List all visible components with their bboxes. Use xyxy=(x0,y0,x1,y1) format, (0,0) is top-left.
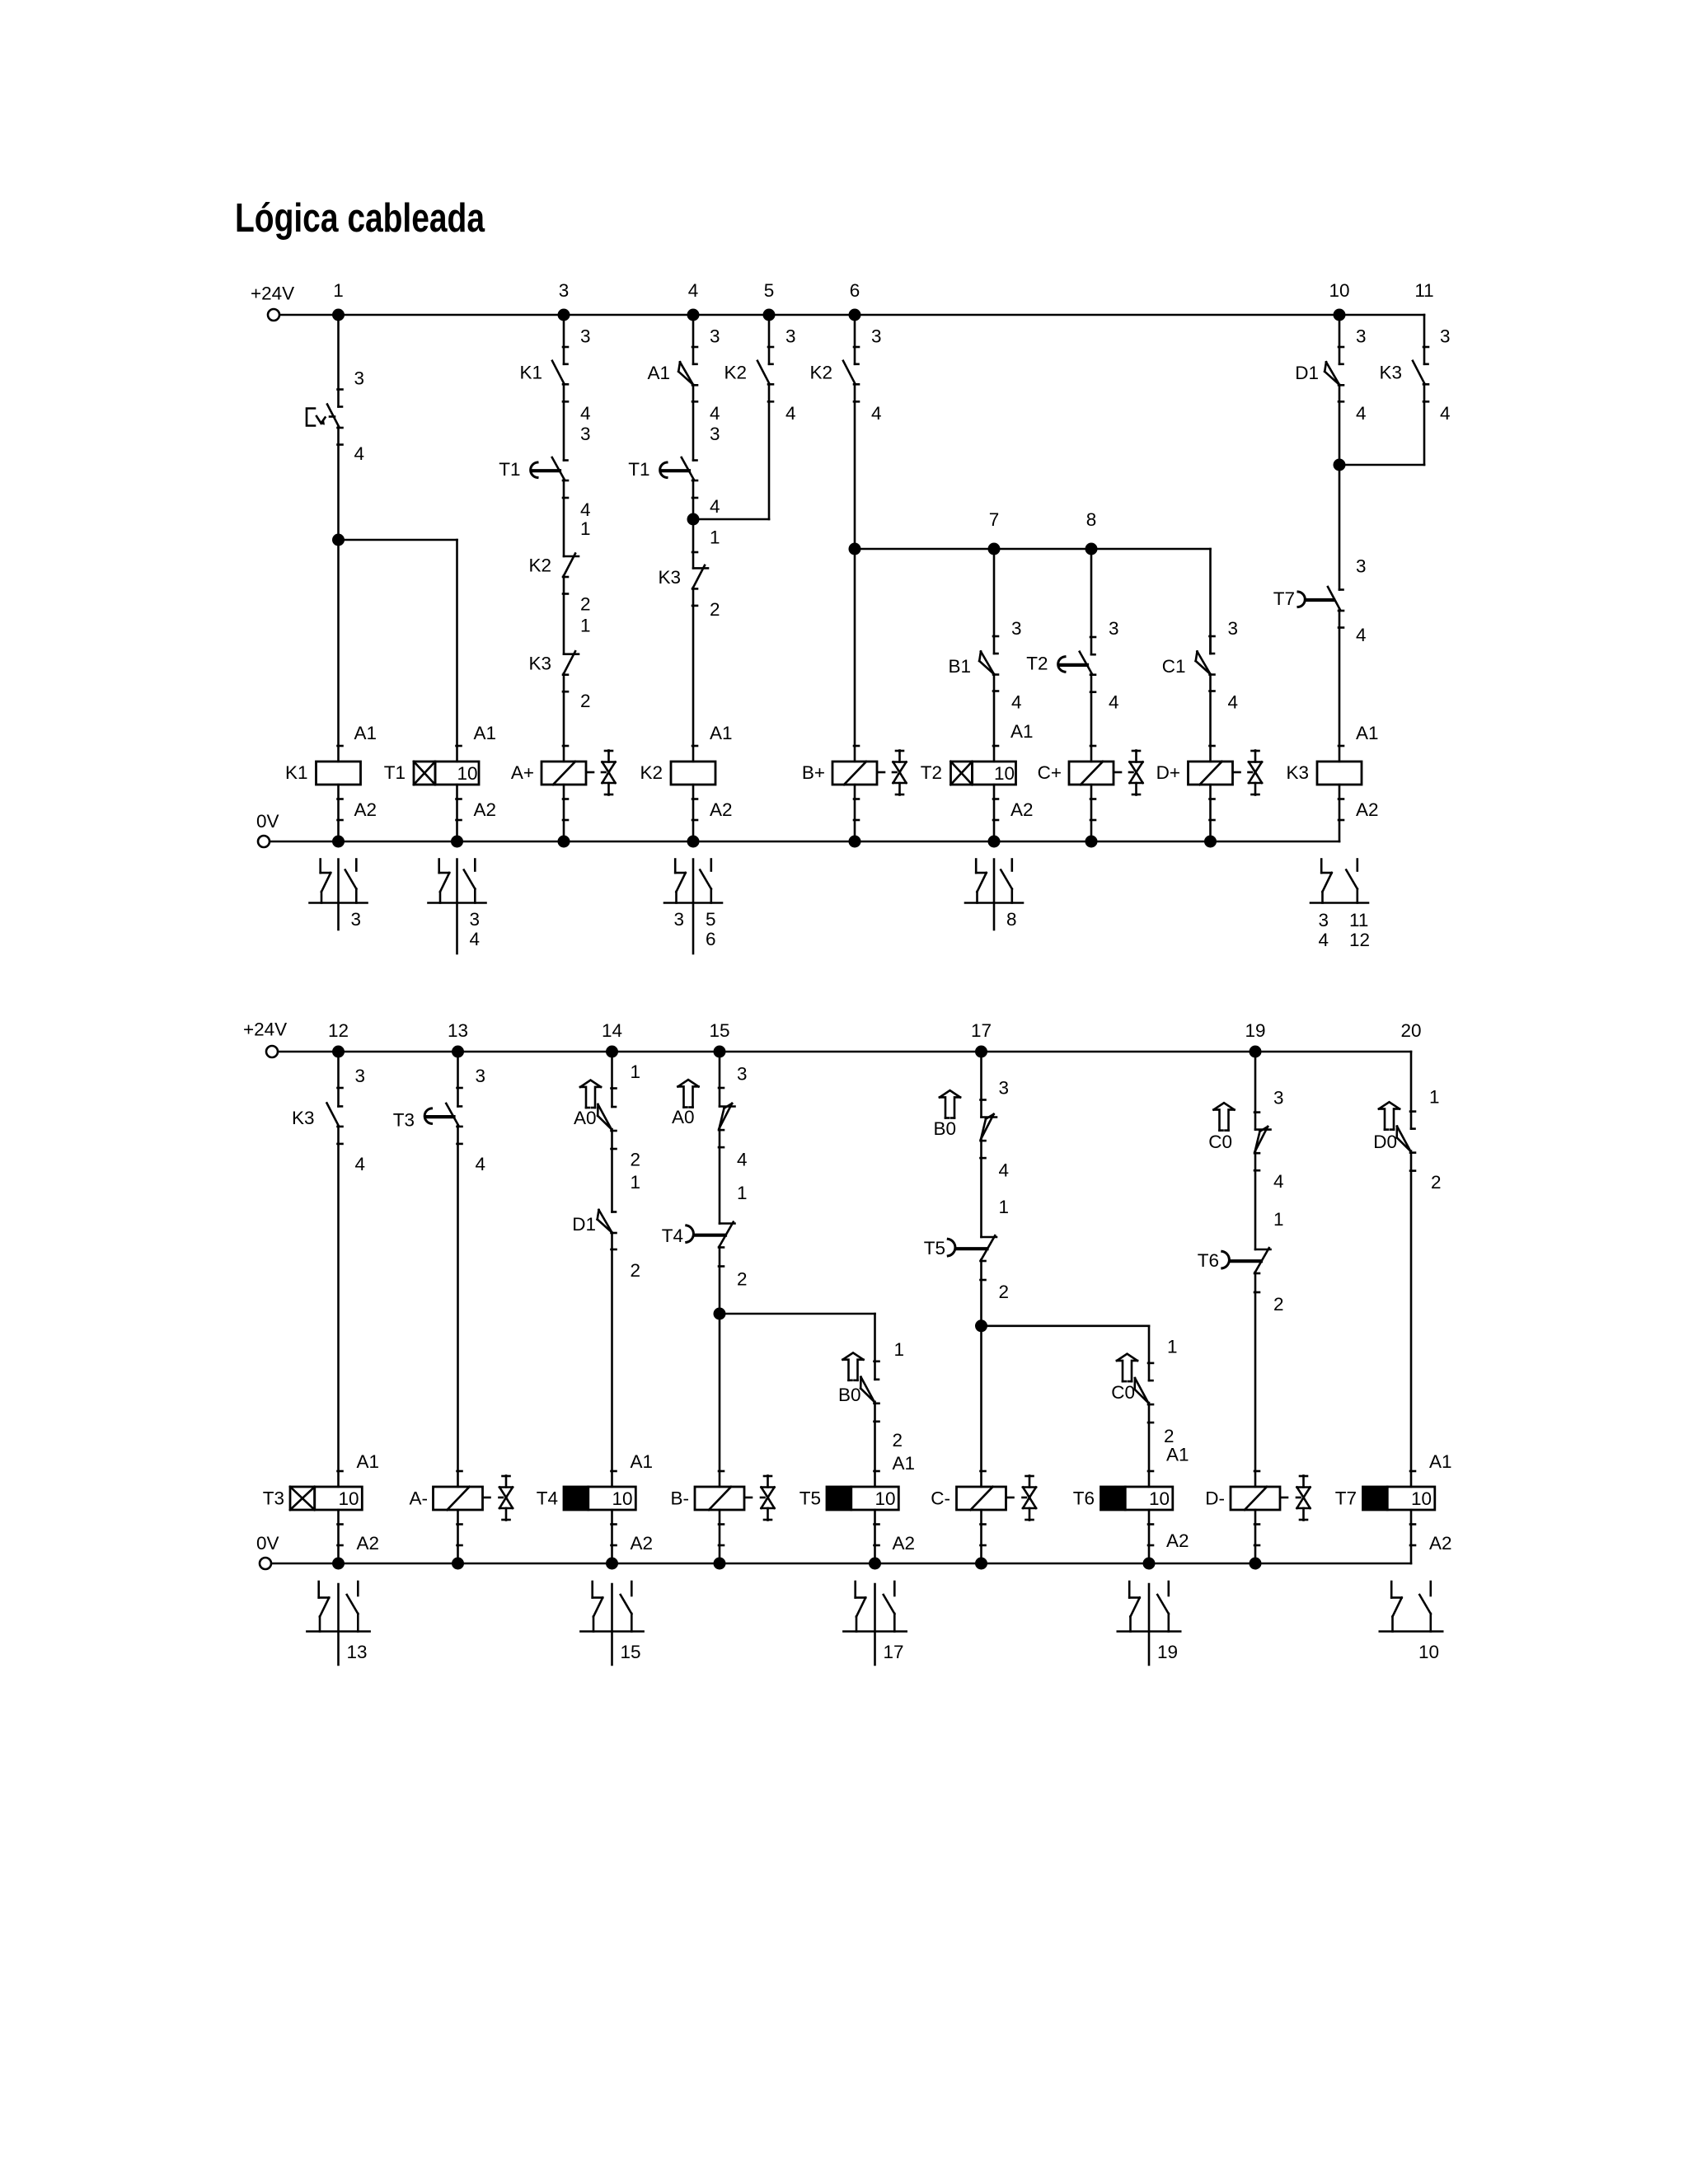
contact K2 (NO) col6 xyxy=(809,361,859,402)
wire col8 T2 to C+ coil xyxy=(1090,673,1095,762)
svg-text:C+: C+ xyxy=(1038,762,1062,783)
svg-text:3: 3 xyxy=(1356,326,1367,347)
pin label A2 (T1) xyxy=(474,799,497,820)
svg-text:A1: A1 xyxy=(1166,1445,1189,1465)
actuation arrow (B0 inner) xyxy=(843,1352,864,1380)
wire col4 T1 to junction xyxy=(692,480,695,520)
pin label 1 (K2 contact col3) xyxy=(580,518,591,539)
pin label 1 (K3 contact col4) xyxy=(710,527,720,547)
node col4 on 0V rail xyxy=(687,836,700,848)
svg-text:3: 3 xyxy=(470,909,481,930)
solenoid C+ xyxy=(1038,762,1121,785)
pin label 3 (T1 contact col4) xyxy=(710,424,720,444)
svg-text:A0: A0 xyxy=(574,1108,597,1128)
actuation arrow (D0) xyxy=(1379,1102,1400,1129)
pin label 2 (B0 contact) xyxy=(893,1430,903,1451)
mirror ref 12 (K3) xyxy=(1349,930,1370,950)
svg-text:4: 4 xyxy=(1273,1171,1284,1192)
svg-text:T6: T6 xyxy=(1198,1250,1219,1271)
pin label A2 (T4) xyxy=(631,1533,654,1554)
node col12 on 0V rail (bottom) xyxy=(332,1558,345,1570)
svg-text:2: 2 xyxy=(580,594,591,615)
wire col8 from branch xyxy=(1090,549,1095,654)
wire col4 junction-K3 xyxy=(692,519,697,568)
pin label 2 (C0 contact) xyxy=(1164,1426,1175,1446)
svg-text:3: 3 xyxy=(737,1064,748,1085)
wire A- to 0V xyxy=(457,1510,462,1563)
pin label A1 (K2) xyxy=(710,723,733,743)
svg-text:4: 4 xyxy=(1318,930,1329,950)
pin label A2 (K1) xyxy=(354,799,377,820)
wire D+ to 0V xyxy=(1210,785,1215,841)
svg-text:15: 15 xyxy=(621,1642,641,1662)
node 20 label xyxy=(1400,1020,1421,1041)
solenoid A- xyxy=(410,1487,490,1510)
actuation arrow (C0 col19) xyxy=(1214,1103,1235,1130)
node 17 on +24V rail (bottom) xyxy=(971,1020,992,1058)
svg-text:T6: T6 xyxy=(1073,1488,1095,1509)
svg-text:4: 4 xyxy=(737,1149,748,1169)
pin label 4 (K2 contact col6) xyxy=(871,403,882,424)
svg-text:3: 3 xyxy=(580,326,591,347)
pin label 2 (A0 contact col14) xyxy=(631,1149,641,1169)
svg-text:K1: K1 xyxy=(285,762,308,783)
svg-text:6: 6 xyxy=(850,280,860,301)
svg-text:T7: T7 xyxy=(1335,1488,1357,1509)
wire A+ to 0V xyxy=(563,785,568,841)
pin label 3 (A1 contact) xyxy=(710,326,720,347)
pin label 4 (B1 contact) xyxy=(1011,691,1022,712)
svg-text:T5: T5 xyxy=(799,1488,821,1509)
pin label 3 (K1 contact) xyxy=(580,326,591,347)
contact K3 (NC) xyxy=(528,651,579,691)
pin label 3 (T2 contact) xyxy=(1109,618,1119,639)
svg-text:2: 2 xyxy=(999,1282,1010,1302)
svg-text:A2: A2 xyxy=(631,1533,654,1554)
mirror contacts K2 xyxy=(664,860,722,954)
node 11 label xyxy=(1414,280,1433,301)
pin label 3 (B0 contact col17) xyxy=(999,1077,1010,1098)
node: junction col6/branch 7-8 xyxy=(849,543,861,555)
svg-text:A2: A2 xyxy=(1356,799,1379,820)
svg-text:4: 4 xyxy=(580,499,591,520)
wire col17 B0-T5 xyxy=(980,1139,982,1237)
wire col13 from rail xyxy=(457,1052,462,1106)
svg-text:3: 3 xyxy=(710,326,720,347)
wire col15 to B- coil xyxy=(719,1314,724,1487)
svg-text:15: 15 xyxy=(709,1020,729,1041)
svg-text:7: 7 xyxy=(989,509,1000,530)
wire col7 B1 to T2 coil xyxy=(993,674,998,762)
node 15 on +24V rail (bottom) xyxy=(709,1020,729,1058)
pin label 1 (T5 contact) xyxy=(999,1197,1010,1217)
svg-text:1: 1 xyxy=(737,1183,748,1203)
solenoid C- xyxy=(931,1487,1013,1510)
svg-text:A1: A1 xyxy=(357,1451,380,1472)
pin label A2 (K2) xyxy=(710,799,733,820)
svg-text:T5: T5 xyxy=(924,1238,945,1258)
wire col1 down to K1 coil xyxy=(338,427,343,762)
contact A0 (limit switch NC) xyxy=(672,1104,735,1147)
node 12 on +24V rail (bottom) xyxy=(328,1020,349,1058)
svg-text:10: 10 xyxy=(875,1488,896,1509)
wire C+ to 0V xyxy=(1090,785,1095,841)
coil K2 xyxy=(640,762,715,785)
svg-text:1: 1 xyxy=(333,280,344,301)
svg-text:1: 1 xyxy=(1273,1209,1284,1230)
wire: +24V rail (bottom) xyxy=(279,1051,1412,1053)
svg-text:5: 5 xyxy=(764,280,775,301)
svg-text:D1: D1 xyxy=(572,1214,596,1235)
svg-text:4: 4 xyxy=(1356,403,1367,424)
contact C0 (limit switch, actuated NO) xyxy=(1111,1378,1153,1422)
svg-text:T7: T7 xyxy=(1273,588,1295,609)
svg-text:1: 1 xyxy=(1167,1336,1178,1357)
node 3 on +24V rail xyxy=(558,280,570,321)
contact K3 (NO) col12 xyxy=(292,1103,343,1144)
pin label 3 (T7 contact) xyxy=(1356,556,1367,577)
svg-text:3: 3 xyxy=(673,909,684,930)
pin label 2 (D0 contact) xyxy=(1431,1172,1442,1193)
wire col5 from +24V rail xyxy=(768,315,773,364)
node col8 on 0V rail xyxy=(1085,836,1098,848)
wire col11 down to junction col10 xyxy=(1339,384,1424,465)
pin label 4 (T2 contact) xyxy=(1109,691,1119,712)
start switch S (NO, detent) xyxy=(307,405,343,445)
mirror contacts T2 xyxy=(965,860,1023,930)
svg-text:0V: 0V xyxy=(256,811,279,832)
wire col4 from +24V rail xyxy=(692,315,697,364)
wire T4 coil to 0V xyxy=(612,1510,617,1563)
svg-text:4: 4 xyxy=(999,1160,1010,1181)
pin label 4 (A1 contact) xyxy=(710,403,720,424)
timer coil T5 xyxy=(799,1487,899,1510)
svg-text:K3: K3 xyxy=(1286,762,1309,783)
svg-text:A1: A1 xyxy=(893,1453,916,1474)
svg-text:3: 3 xyxy=(559,280,570,301)
actuation arrow (A0 col14) xyxy=(580,1080,601,1108)
svg-text:B1: B1 xyxy=(948,656,971,677)
mirror contacts T3 xyxy=(307,1582,369,1665)
wire: 0V rail (bottom) xyxy=(272,1563,1412,1565)
node col6 on 0V rail xyxy=(849,836,861,848)
mirror contacts T4 xyxy=(580,1582,643,1665)
solenoid A+ xyxy=(511,762,593,785)
wire col4 K3 to K2 coil xyxy=(692,588,697,762)
svg-text:1: 1 xyxy=(631,1172,641,1193)
svg-text:D0: D0 xyxy=(1373,1132,1397,1152)
svg-text:4: 4 xyxy=(1440,403,1451,424)
mirror contacts T6 xyxy=(1118,1582,1180,1665)
contact A0 (limit switch, actuated NO) xyxy=(574,1104,617,1149)
wire B+ to 0V xyxy=(854,785,859,841)
wire branch col1 to T1 coil xyxy=(339,540,462,762)
svg-text:4: 4 xyxy=(688,280,699,301)
contact T1 (NO, on-delay) col4 xyxy=(628,457,697,498)
pin label 2 (K2 contact col3) xyxy=(580,594,591,615)
svg-text:A1: A1 xyxy=(1010,721,1034,742)
svg-text:A1: A1 xyxy=(1429,1451,1452,1472)
pin label 4 (K3 contact col12) xyxy=(355,1154,366,1174)
wire T7 coil to 0V corner xyxy=(1410,1510,1415,1563)
pin label A1 (T7) xyxy=(1429,1451,1452,1472)
node col14 on 0V rail (bottom) xyxy=(606,1558,618,1570)
wire col19 from rail xyxy=(1254,1052,1259,1130)
wire K3 coil to 0V xyxy=(1339,785,1343,841)
mirror contacts T5 xyxy=(843,1582,906,1665)
pin label 4 (B0 contact col17) xyxy=(999,1160,1010,1181)
svg-text:17: 17 xyxy=(971,1020,992,1041)
svg-text:A1: A1 xyxy=(354,723,377,743)
svg-text:Lógica cableada: Lógica cableada xyxy=(235,196,485,241)
svg-text:10: 10 xyxy=(1149,1488,1170,1509)
pin label 1 (A0 contact col14) xyxy=(631,1062,641,1082)
contact D0 (limit switch, actuated NO) xyxy=(1373,1127,1415,1171)
svg-text:11: 11 xyxy=(1414,280,1433,301)
pin label A1 (K3) xyxy=(1356,723,1379,743)
solenoid B- xyxy=(671,1487,753,1510)
svg-text:4: 4 xyxy=(1228,691,1239,712)
svg-text:B-: B- xyxy=(671,1488,690,1509)
pin label A2 (K3) xyxy=(1356,799,1379,820)
wire col12 to T3 coil xyxy=(338,1126,343,1487)
contact D1 (limit switch NO) col14 xyxy=(572,1210,616,1249)
wire branch to cols 7,8 and D+ xyxy=(855,549,1211,654)
pin label A2 (T7) xyxy=(1429,1533,1452,1554)
svg-text:3: 3 xyxy=(1011,618,1022,639)
wire col17 from rail xyxy=(981,1052,986,1118)
svg-text:20: 20 xyxy=(1400,1020,1421,1041)
svg-text:T2: T2 xyxy=(1026,654,1048,674)
wire col20 from rail corner xyxy=(1410,1052,1415,1129)
wire col15 T4 to junction xyxy=(719,1246,721,1314)
svg-text:2: 2 xyxy=(1164,1426,1175,1446)
pin label A1 (T6) xyxy=(1166,1445,1189,1465)
pin label 3 (B1 contact) xyxy=(1011,618,1022,639)
svg-text:4: 4 xyxy=(354,443,365,464)
contact K1 (NO) xyxy=(519,361,568,402)
node col2 on 0V rail xyxy=(451,836,463,848)
svg-text:12: 12 xyxy=(328,1020,349,1041)
throttle valve (A+) xyxy=(602,751,616,795)
svg-text:K1: K1 xyxy=(519,363,542,383)
svg-text:A0: A0 xyxy=(672,1107,695,1127)
svg-text:A1: A1 xyxy=(631,1451,654,1472)
wire col14 A0-D1 xyxy=(611,1129,613,1212)
wire B- to 0V xyxy=(719,1510,724,1563)
wire col3 K3 to A+ coil xyxy=(563,673,568,762)
svg-text:10: 10 xyxy=(994,763,1015,784)
svg-text:19: 19 xyxy=(1157,1642,1178,1662)
solenoid D- xyxy=(1205,1487,1287,1510)
svg-text:4: 4 xyxy=(871,403,882,424)
svg-text:2: 2 xyxy=(1273,1294,1284,1315)
svg-text:3: 3 xyxy=(1318,910,1329,930)
wire col10 D1 to junction xyxy=(1339,385,1341,465)
svg-text:1: 1 xyxy=(1429,1087,1440,1108)
svg-text:6: 6 xyxy=(706,929,716,949)
svg-text:T3: T3 xyxy=(263,1488,284,1509)
svg-text:K3: K3 xyxy=(658,567,681,588)
svg-text:A2: A2 xyxy=(357,1533,380,1554)
wire T3 coil to 0V xyxy=(338,1510,343,1563)
svg-text:2: 2 xyxy=(631,1260,641,1281)
wire C0 to T6 coil xyxy=(1148,1403,1153,1487)
pin label A1 (T5) xyxy=(893,1453,916,1474)
contact A1 (limit switch NO) xyxy=(647,362,697,401)
node D+ col on 0V rail xyxy=(1204,836,1217,848)
svg-text:19: 19 xyxy=(1245,1020,1265,1041)
svg-text:10: 10 xyxy=(1411,1488,1432,1509)
contact T1 (NO, on-delay) xyxy=(499,457,568,498)
wire col3 K2-K3 xyxy=(563,576,565,654)
mirror ref 3 (K3) xyxy=(1318,910,1329,930)
pin label 4 (A0 contact col15) xyxy=(737,1149,748,1169)
pin label 4 (C0 contact col19) xyxy=(1273,1171,1284,1192)
svg-text:2: 2 xyxy=(631,1149,641,1169)
svg-text:K3: K3 xyxy=(528,654,551,674)
throttle valve (C-) xyxy=(1023,1476,1037,1521)
svg-text:A1: A1 xyxy=(647,363,670,383)
wire col3 K1-T1 xyxy=(563,384,565,461)
pin label 3 (start switch) xyxy=(354,368,365,389)
mirror ref 10 (T7) xyxy=(1418,1642,1439,1662)
svg-text:A+: A+ xyxy=(511,762,534,783)
mirror ref 8 (T2) xyxy=(1006,909,1017,930)
svg-text:2: 2 xyxy=(893,1430,903,1451)
contact B0 (limit switch NC) xyxy=(933,1114,996,1158)
svg-text:3: 3 xyxy=(1273,1088,1284,1108)
pin label 1 (T6 contact) xyxy=(1273,1209,1284,1230)
mirror contacts T7 xyxy=(1380,1582,1442,1632)
title: Lógica cableada xyxy=(235,196,485,241)
svg-text:8: 8 xyxy=(1086,509,1097,530)
node col13 on 0V rail (bottom) xyxy=(452,1558,464,1570)
svg-text:1: 1 xyxy=(580,616,591,636)
svg-text:A1: A1 xyxy=(710,723,733,743)
wire col14 from rail xyxy=(612,1052,617,1107)
wire branch col5 to col4 xyxy=(693,518,769,521)
contact B1 (limit switch NO) xyxy=(948,652,998,691)
mirror ref 4 (T1) xyxy=(470,929,481,949)
node 19 on +24V rail (bottom) xyxy=(1245,1020,1265,1058)
pin label 4 (K3 contact col11) xyxy=(1440,403,1451,424)
pin label 4 (T1 contact col4) xyxy=(710,496,720,517)
mirror ref 3 (K2) xyxy=(673,909,684,930)
svg-text:T1: T1 xyxy=(628,459,649,480)
svg-text:3: 3 xyxy=(354,368,365,389)
svg-text:A-: A- xyxy=(410,1488,429,1509)
svg-text:12: 12 xyxy=(1349,930,1370,950)
svg-text:C0: C0 xyxy=(1111,1382,1135,1403)
svg-text:3: 3 xyxy=(999,1077,1010,1098)
solenoid D+ xyxy=(1156,762,1240,785)
pin label 4 (T1 contact col3) xyxy=(580,499,591,520)
node: junction col4/col5 xyxy=(687,513,700,526)
wire D- to 0V xyxy=(1254,1510,1259,1563)
svg-text:T2: T2 xyxy=(921,762,942,783)
svg-text:3: 3 xyxy=(871,326,882,347)
contact C1 (limit switch NO) xyxy=(1162,652,1215,691)
svg-text:T1: T1 xyxy=(499,459,520,480)
mirror contacts K3 xyxy=(1311,860,1368,903)
svg-text:10: 10 xyxy=(339,1488,359,1509)
svg-text:T4: T4 xyxy=(537,1488,558,1509)
mirror ref 3 (K1) xyxy=(351,909,362,930)
wire C- to 0V xyxy=(981,1510,986,1563)
svg-text:D-: D- xyxy=(1205,1488,1225,1509)
svg-text:3: 3 xyxy=(1440,326,1451,347)
wire col11 from +24V rail corner xyxy=(1423,315,1428,364)
pin label 3 (K2 contact col6) xyxy=(871,326,882,347)
wire B0 to T5 coil xyxy=(874,1402,879,1487)
svg-text:3: 3 xyxy=(1228,618,1239,639)
throttle valve (D-) xyxy=(1296,1476,1311,1521)
wire col15 from rail xyxy=(719,1052,724,1107)
wire col19 C0-T6 xyxy=(1254,1151,1257,1249)
pin label 3 (K2 contact col5) xyxy=(785,326,796,347)
svg-text:13: 13 xyxy=(347,1642,368,1662)
wire col10 junction-T7 xyxy=(1339,465,1341,590)
contact K3 (NO) col11 xyxy=(1379,361,1428,402)
svg-text:4: 4 xyxy=(355,1154,366,1174)
svg-text:K3: K3 xyxy=(292,1108,315,1128)
svg-text:1: 1 xyxy=(894,1339,905,1360)
svg-text:3: 3 xyxy=(710,424,720,444)
svg-text:3: 3 xyxy=(785,326,796,347)
svg-text:3: 3 xyxy=(476,1066,486,1086)
wire col15 A0-T4 xyxy=(719,1128,721,1223)
svg-text:A1: A1 xyxy=(1356,723,1379,743)
svg-text:3: 3 xyxy=(580,424,591,444)
pin label A1 (T3) xyxy=(357,1451,380,1472)
mirror ref 17 (T5) xyxy=(884,1642,904,1662)
timer coil T4 xyxy=(537,1487,636,1510)
pin label 1 (T4 contact) xyxy=(737,1183,748,1203)
pin label 4 (C1 contact) xyxy=(1228,691,1239,712)
actuation arrow (C0 inner) xyxy=(1117,1354,1137,1381)
wire col17 T5 to junction xyxy=(980,1259,982,1325)
timer coil T3 xyxy=(263,1487,363,1510)
svg-text:D+: D+ xyxy=(1156,762,1180,783)
node: junction col17/branch C0 xyxy=(975,1319,987,1332)
svg-text:A2: A2 xyxy=(354,799,377,820)
node col19 on 0V rail (bottom) xyxy=(1250,1558,1262,1570)
pin label 4 (start switch) xyxy=(354,443,365,464)
contact T7 (NO, off-delay) xyxy=(1273,587,1343,628)
svg-text:K2: K2 xyxy=(640,762,663,783)
svg-text:B0: B0 xyxy=(838,1385,861,1405)
pin label 3 (K3 contact col12) xyxy=(355,1066,366,1086)
node col17 on 0V rail (bottom) xyxy=(975,1558,987,1570)
pin label 3 (C0 contact col19) xyxy=(1273,1088,1284,1108)
svg-text:0V: 0V xyxy=(256,1533,279,1554)
contact T3 (NO, on-delay) xyxy=(393,1104,462,1144)
svg-text:11: 11 xyxy=(1349,910,1368,930)
svg-text:4: 4 xyxy=(1109,691,1119,712)
svg-text:+24V: +24V xyxy=(243,1019,287,1040)
pin label 2 (T6 contact) xyxy=(1273,1294,1284,1315)
throttle valve (B-) xyxy=(761,1476,775,1521)
svg-text:A2: A2 xyxy=(710,799,733,820)
wire col10 T7 to K3 coil xyxy=(1339,610,1343,762)
0V supply terminal (top) xyxy=(256,811,279,847)
svg-text:B0: B0 xyxy=(933,1118,956,1139)
svg-text:5: 5 xyxy=(706,909,716,930)
pin label 2 (K3 contact col3) xyxy=(580,691,591,711)
node 4 on +24V rail xyxy=(687,280,700,321)
pin label 3 (A0 contact col15) xyxy=(737,1064,748,1085)
